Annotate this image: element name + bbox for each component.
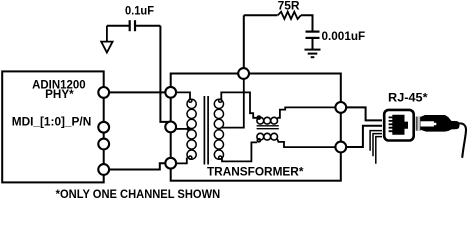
- capacitor C1 0.1uF: [107, 20, 160, 31]
- inductor primary winding: [187, 99, 196, 159]
- ethernet plug contacts: [416, 117, 421, 131]
- node circle T1 left middle: [165, 122, 176, 133]
- wire node A vertical to 75R: [243, 15, 245, 68]
- inductor choke bottom winding: [257, 133, 278, 142]
- wire right node top to RJ45: [346, 107, 382, 120]
- node circle T1 left bottom: [165, 158, 176, 169]
- transformer core: [204, 96, 208, 165]
- svg-text:75R: 75R: [278, 0, 300, 13]
- ground GND1 (triangle): [101, 26, 112, 53]
- RJ45 jack silhouette: [389, 115, 408, 135]
- node circle T1 right bottom: [335, 142, 346, 153]
- junction dot primary CT: [186, 127, 190, 131]
- ethernet plug body: [421, 115, 460, 132]
- svg-text:TRANSFORMER*: TRANSFORMER*: [207, 165, 304, 179]
- RJ45 shield pin 1: [370, 131, 382, 151]
- node circle T1 left top: [165, 87, 176, 98]
- RJ45 shield pin 3: [376, 137, 382, 164]
- PHY U1 ADIN1200 box: [2, 71, 104, 182]
- transformer T1 box: [171, 74, 341, 181]
- wire C2 to ground: [312, 39, 314, 50]
- wire choke top to right node: [277, 107, 336, 117]
- capacitor C2 0.001uF: [306, 32, 320, 38]
- wire pin4 to transformer (jog): [106, 163, 168, 169]
- svg-text:PHY*: PHY*: [45, 87, 74, 101]
- pin circle PHY 4: [98, 164, 109, 175]
- wire secondary bottom to choke: [222, 142, 257, 161]
- choke core: [257, 126, 279, 129]
- pin circle PHY 1: [98, 87, 109, 98]
- wire pin1 to transformer: [106, 91, 168, 93]
- wire primary top terminal: [176, 92, 190, 100]
- pin circle PHY 3: [98, 139, 109, 150]
- ground GND2 (earth): [305, 50, 321, 58]
- svg-text:0.1uF: 0.1uF: [125, 4, 154, 18]
- RJ45 shield pin 2: [373, 134, 382, 157]
- svg-text:*ONLY ONE CHANNEL SHOWN: *ONLY ONE CHANNEL SHOWN: [56, 187, 221, 201]
- resistor R1 75R: [278, 12, 301, 19]
- wire secondary center tap to node A: [221, 79, 244, 128]
- svg-text:RJ-45*: RJ-45*: [388, 91, 428, 105]
- wire C1 to primary center tap: [160, 26, 170, 122]
- wire right node bottom to RJ45: [346, 126, 382, 147]
- node circle T1 top: [238, 68, 249, 79]
- wire secondary top to choke: [221, 92, 257, 117]
- ethernet cable: [459, 123, 467, 157]
- wire R1 to C2: [301, 15, 313, 30]
- inductor secondary winding: [214, 99, 223, 159]
- node circle T1 right top: [335, 102, 346, 113]
- svg-text:MDI_[1:0]_P/N: MDI_[1:0]_P/N: [12, 115, 92, 129]
- inductor choke top winding: [257, 116, 278, 124]
- RJ45 connector J1 body: [384, 110, 414, 141]
- pin circle PHY 2: [98, 122, 109, 133]
- wire primary center tap: [176, 128, 188, 130]
- wire choke bottom to right node: [277, 139, 335, 147]
- wire primary bottom terminal: [176, 158, 187, 164]
- svg-text:0.001uF: 0.001uF: [322, 29, 366, 43]
